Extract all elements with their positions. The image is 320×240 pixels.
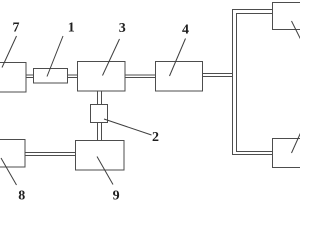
wire block4 to right vertical bus (203, 73, 234, 75)
block 2 (91, 105, 108, 123)
leader line to label 2 (104, 119, 152, 135)
leader line to label 7 (2, 36, 17, 68)
wire block7 to block1 (26, 74, 34, 76)
wire bottom corner to mid-right block (237, 151, 273, 153)
leader line to label 4 (170, 39, 186, 77)
svg-text:7: 7 (13, 21, 20, 36)
svg-text:4: 4 (182, 23, 189, 38)
wire block1 to block3 (68, 74, 78, 76)
block 8 (0, 140, 25, 168)
block 1 (34, 69, 68, 84)
block 9 (76, 141, 125, 171)
svg-text:8: 8 (18, 189, 25, 201)
svg-text:2: 2 (152, 130, 159, 145)
wire right vertical bus (232, 9, 234, 155)
block 7 (0, 63, 26, 93)
wire top corner to top-right block (232, 9, 273, 11)
svg-text:1: 1 (68, 21, 75, 36)
svg-text:3: 3 (119, 21, 126, 36)
wire block8 to block9 (25, 152, 76, 154)
leader line to label 1 (47, 36, 63, 77)
leader line in mid-right block (292, 133, 301, 153)
leader line to label 8 (1, 158, 17, 185)
block mid-right (273, 139, 311, 168)
wire block2 to block9 vertical (97, 123, 99, 141)
block 4 (156, 62, 203, 92)
leader line to label 9 (97, 157, 113, 185)
leader line in top-right block (292, 21, 301, 39)
leader line to label 3 (103, 39, 120, 76)
block top-right (273, 3, 311, 30)
wire block3 to block4 (125, 74, 156, 76)
svg-text:9: 9 (113, 189, 120, 201)
block 3 (78, 62, 126, 92)
wire block3 to block2 vertical (97, 91, 99, 105)
